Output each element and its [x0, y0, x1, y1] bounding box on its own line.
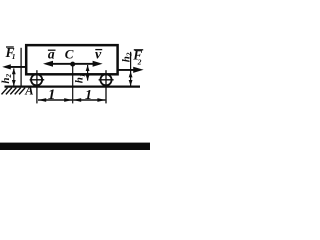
black strip at bottom of figure [0, 143, 150, 150]
svg-text:2: 2 [137, 57, 142, 66]
ground hatching (bottom-left) [2, 88, 26, 95]
svg-text:1: 1 [85, 88, 92, 103]
label F1 with overbar [5, 45, 16, 61]
left vertical bar on wall side of cart [20, 48, 22, 87]
extension line from C down through cart bottom to dimension line [72, 64, 74, 103]
svg-text:A: A [24, 84, 33, 98]
label v with overbar [95, 47, 102, 62]
svg-text:1: 1 [12, 52, 16, 61]
svg-text:v: v [95, 47, 102, 62]
svg-text:1: 1 [48, 87, 56, 103]
force F1 arrow (pointing left) [2, 64, 26, 69]
label a with overbar [48, 46, 56, 61]
right wheel vertical axis + extension line down to dimension [105, 70, 107, 103]
dimension h2 (left): vertical double arrow from F1 line to ground [12, 68, 16, 86]
dimension l (right span C to wheel) [73, 98, 105, 102]
acceleration/velocity line through C: a-arrow left, v-arrow right [43, 61, 103, 67]
ground line [5, 85, 141, 87]
cart body rectangle [26, 45, 117, 74]
node C dot (center of mass) [70, 62, 75, 67]
dimension h2 (right): vertical line with double arrow from F2 line to ground [129, 52, 133, 86]
label F2 with overbar [132, 48, 143, 67]
left wheel vertical axis + extension line down to dimension (point A contact) [36, 70, 38, 103]
svg-text:a: a [48, 46, 55, 61]
svg-text:C: C [65, 46, 74, 61]
force F2 arrow (pointing right) [118, 67, 144, 73]
right wheel (circle with cross) [99, 74, 114, 85]
dimension h1 (center): from C line down to axle level [86, 65, 90, 81]
dimension l (left span A to C) [38, 98, 72, 102]
left wheel (circle with cross) [30, 74, 45, 85]
